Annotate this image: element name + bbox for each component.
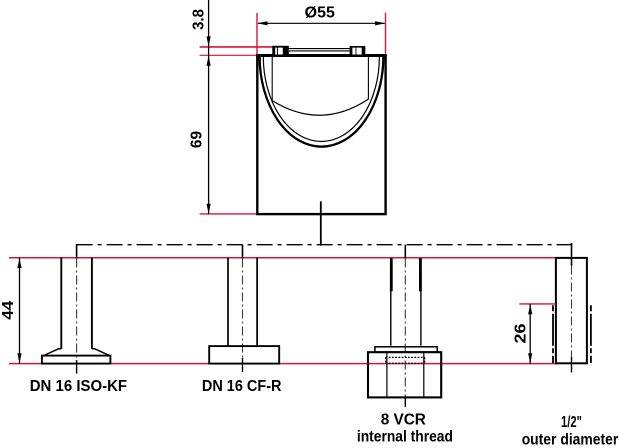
svg-text:8 VCR: 8 VCR xyxy=(381,412,427,429)
ISO-KF tube centerline dash-dot xyxy=(76,259,78,361)
red extension line y=213.9 (69 bottom) xyxy=(200,213,259,215)
arrowhead up tip y=55.7 (69 top) xyxy=(207,56,211,66)
CF-R tube left wall xyxy=(227,258,229,346)
lid top bar lower line xyxy=(289,50,350,52)
half-inch tube side dashed line left xyxy=(552,305,554,363)
VCR collar xyxy=(375,347,437,352)
svg-text:3.8: 3.8 xyxy=(191,9,208,30)
VCR tube left wall thick weld section xyxy=(390,258,393,291)
half-inch tube centerline stub top xyxy=(571,243,573,266)
red extension line y=46.9 (3.8 top) xyxy=(200,46,273,48)
CF-R centerline bottom tick xyxy=(242,358,244,372)
half-inch tube centerline dash-dot xyxy=(571,266,573,358)
svg-text:outer diameter: outer diameter xyxy=(522,432,619,448)
arrowhead down tip y=46.5 (3.8) xyxy=(207,36,211,46)
VCR centerline bottom tick xyxy=(404,396,406,407)
lid right clamp block xyxy=(350,46,366,55)
dimension extension line red vertical right (Ø55) xyxy=(385,13,387,54)
dimension line Ø55 xyxy=(258,22,385,24)
VCR tube right wall xyxy=(420,258,422,345)
arrowhead down tip (44) xyxy=(17,353,21,363)
svg-text:26: 26 xyxy=(513,323,530,343)
red extension line y=55.3 (3.8 bottom) xyxy=(200,54,258,56)
inner cylinder wall left xyxy=(271,57,273,101)
VCR tube left wall xyxy=(390,258,392,345)
VCR internal thread hidden line bottom xyxy=(386,362,425,364)
ISO-KF centerline stub (corner) xyxy=(76,244,78,258)
VCR nut hex facet line right xyxy=(423,352,425,397)
VCR tube centerline dash-dot xyxy=(404,259,406,397)
long red line bottom (flange face plane) xyxy=(9,363,557,365)
arrowhead down tip y=213.8 (69 bottom) xyxy=(207,204,211,214)
dimension line vertical left (3.8 / 69) xyxy=(208,0,210,214)
svg-text:internal thread: internal thread xyxy=(357,429,453,446)
ISO-KF centerline bottom tick xyxy=(76,360,78,374)
outer bowl curve xyxy=(260,56,384,147)
inner bowl curve xyxy=(263,57,379,142)
center connection stub below body xyxy=(320,201,322,245)
VCR internal thread hidden line right xyxy=(424,357,426,363)
lid top bar upper line xyxy=(289,48,350,50)
ISO-KF flange flare left xyxy=(44,349,61,356)
half-inch centerline bottom tick xyxy=(571,357,573,373)
main body outline xyxy=(257,56,385,215)
VCR nut body xyxy=(368,352,441,397)
VCR centerline stub xyxy=(404,245,406,259)
svg-text:DN 16 CF-R: DN 16 CF-R xyxy=(202,378,282,395)
arrowhead left (Ø55) xyxy=(257,21,267,25)
long red line top (flange plane) xyxy=(9,257,556,259)
lid left clamp block xyxy=(272,46,289,55)
ISO-KF tube right wall xyxy=(91,258,93,349)
half-inch tube side dashed line right xyxy=(590,305,592,363)
main body top plate thick line xyxy=(256,54,387,57)
arrowhead up tip (26) xyxy=(528,304,532,314)
CF-R tube right wall xyxy=(256,258,258,346)
half-inch tube body xyxy=(556,258,587,363)
VCR internal thread hidden line left xyxy=(385,357,387,363)
arrowhead down tip (26) xyxy=(528,353,532,363)
svg-text:44: 44 xyxy=(0,300,17,319)
inner dish rim arc xyxy=(272,99,368,115)
svg-text:Ø55: Ø55 xyxy=(305,5,336,22)
VCR tube right wall thick weld section xyxy=(419,258,422,291)
horizontal dash-dot manifold centerline xyxy=(77,244,573,246)
inner cylinder wall right xyxy=(367,57,369,100)
CF-R centerline stub xyxy=(242,245,244,259)
ISO-KF tube left wall xyxy=(60,258,62,349)
dimension line 44 xyxy=(19,258,21,364)
arrowhead right (Ø55) xyxy=(375,21,385,25)
VCR nut hex facet line left xyxy=(386,352,388,397)
CF-R tube centerline dash-dot xyxy=(242,259,244,359)
ISO-KF flange disc xyxy=(42,356,111,364)
VCR internal thread hidden line top xyxy=(386,356,425,358)
ISO-KF flange flare right xyxy=(92,349,110,356)
CF-R flange xyxy=(209,346,279,364)
dimension extension line red vertical left (Ø55) xyxy=(256,13,258,55)
svg-text:1/2": 1/2" xyxy=(561,414,582,431)
svg-text:69: 69 xyxy=(189,131,206,149)
red extension line (26 top) xyxy=(519,303,556,305)
svg-text:DN 16 ISO-KF: DN 16 ISO-KF xyxy=(30,378,128,395)
arrowhead up tip (44) xyxy=(17,258,21,268)
dimension line 26 xyxy=(529,304,531,364)
